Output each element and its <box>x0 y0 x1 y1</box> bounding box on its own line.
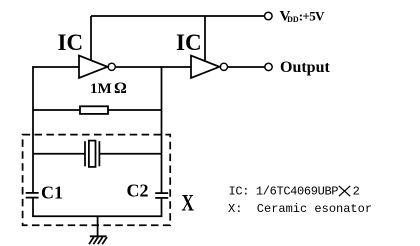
node B wire below C2 <box>161 198 163 217</box>
wire resistor row left <box>33 109 80 111</box>
VDD terminal circle <box>265 12 273 20</box>
svg-text:C1: C1 <box>41 183 63 203</box>
node A wire below C1 <box>32 198 34 217</box>
svg-text:Output: Output <box>280 59 330 76</box>
inverter U1 <box>79 56 115 79</box>
capacitor C2 <box>155 193 168 198</box>
wire U2 output <box>228 66 265 68</box>
svg-text:X: X <box>182 191 195 216</box>
inverter U2 <box>191 56 227 79</box>
dashed box around resonator X <box>23 135 171 226</box>
wire VDD drop to U1 <box>90 16 92 61</box>
wire resistor row right <box>108 109 162 111</box>
wire U1 output to U2 input <box>116 66 191 68</box>
svg-text:1M: 1M <box>90 81 112 97</box>
wire VDD drop to U2 <box>204 16 206 62</box>
node B vertical wire (right) <box>161 66 163 193</box>
wire U1 input <box>32 66 79 68</box>
svg-text:X: Ceramic esonator: X: Ceramic esonator <box>228 202 372 216</box>
multiplication sign in note line 1 <box>339 186 350 196</box>
wire VDD top rail <box>91 15 264 17</box>
node A vertical wire (left) <box>32 66 34 192</box>
Output terminal circle <box>265 63 272 70</box>
ground <box>89 236 107 244</box>
wire resonator row right <box>99 153 161 155</box>
ceramic resonator X1 <box>85 141 99 167</box>
capacitor C1 <box>26 193 39 198</box>
svg-text:IC: 1/6TC4069UBP: IC: 1/6TC4069UBP <box>229 185 339 199</box>
svg-text:C2: C2 <box>127 181 149 201</box>
svg-text:VDD:+5V: VDD:+5V <box>280 9 326 25</box>
svg-text:IC: IC <box>176 30 202 55</box>
svg-text:IC: IC <box>58 30 84 55</box>
svg-text:Ω: Ω <box>114 80 127 97</box>
wire bottom of resonator network <box>32 215 162 217</box>
wire ground stem <box>97 216 99 236</box>
wire resonator row left <box>33 153 85 155</box>
resistor R1 1MΩ <box>80 106 108 114</box>
svg-text:2: 2 <box>353 185 360 199</box>
